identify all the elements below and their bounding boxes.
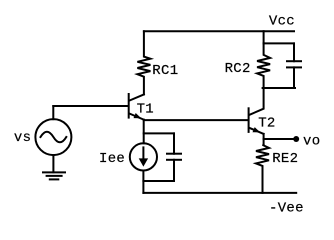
svg-text:-Vee: -Vee [269, 200, 304, 216]
wire RC2 bottom bar [263, 87, 295, 89]
svg-text:T2: T2 [258, 116, 275, 132]
source vs [35, 119, 71, 155]
svg-text:RC2: RC2 [225, 61, 251, 77]
node vo [293, 136, 299, 142]
ground [43, 172, 65, 179]
wire Iee top bar [144, 132, 174, 134]
wire Iee to bottom rail [142, 171, 144, 193]
svg-text:RC1: RC1 [152, 63, 178, 79]
wire to vo [264, 138, 294, 140]
capacitor C1 [167, 133, 181, 181]
svg-text:T1: T1 [137, 101, 154, 117]
resistor RC1 [137, 31, 150, 94]
current source Iee [130, 143, 157, 170]
svg-text:vo: vo [303, 133, 320, 149]
wire vs bottom lead [52, 155, 54, 172]
wire bottom rail [143, 192, 296, 194]
svg-text:vs: vs [14, 130, 31, 146]
wire T1 emitter to T2 base [144, 119, 248, 121]
transistor T1 [129, 94, 144, 120]
svg-text:Vcc: Vcc [269, 13, 295, 29]
transistor T2 [249, 108, 264, 134]
svg-text:RE2: RE2 [272, 151, 298, 167]
resistor RC2 [257, 43, 270, 88]
resistor RE2 [256, 145, 269, 193]
wire Iee bottom bar [143, 180, 174, 182]
wire vs top lead [52, 106, 54, 119]
wire RC2 top bar [264, 42, 294, 44]
capacitor C2 [287, 43, 301, 88]
wire T2 emitter to RE2 [263, 134, 265, 145]
wire T1 base [53, 105, 127, 107]
svg-text:Iee: Iee [99, 151, 125, 167]
wire T2 collector [249, 88, 263, 115]
wire Vcc rail [144, 30, 294, 32]
wire RC2 junction [263, 31, 265, 43]
wire T1 emitter to Iee [143, 120, 145, 144]
